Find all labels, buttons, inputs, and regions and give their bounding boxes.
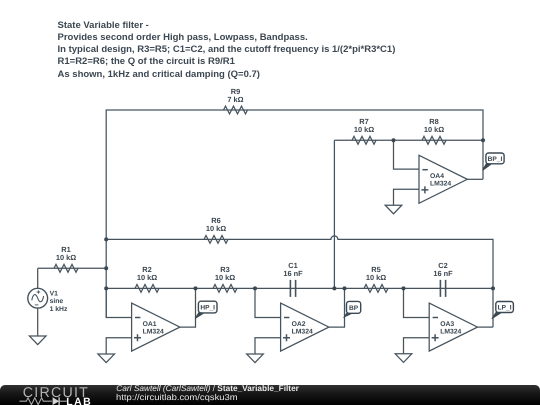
svg-text:OA1: OA1	[143, 321, 157, 328]
svg-text:OA3: OA3	[440, 321, 454, 328]
svg-text:10 kΩ: 10 kΩ	[206, 224, 226, 233]
svg-text:LP_I: LP_I	[498, 304, 512, 311]
svg-text:LM324: LM324	[143, 329, 164, 336]
svg-text:1 kHz: 1 kHz	[50, 306, 68, 313]
svg-text:10 kΩ: 10 kΩ	[56, 253, 76, 262]
svg-text:LM324: LM324	[430, 181, 451, 188]
svg-text:10 kΩ: 10 kΩ	[354, 125, 374, 134]
svg-text:OA2: OA2	[292, 321, 306, 328]
svg-text:OA4: OA4	[430, 173, 444, 180]
svg-text:HP_I: HP_I	[200, 304, 215, 311]
svg-text:10 kΩ: 10 kΩ	[137, 273, 157, 282]
svg-text:16 nF: 16 nF	[283, 269, 303, 278]
svg-text:V1: V1	[50, 291, 59, 298]
svg-text:BP_I: BP_I	[488, 156, 503, 163]
svg-text:10 kΩ: 10 kΩ	[366, 273, 386, 282]
svg-text:10 kΩ: 10 kΩ	[424, 125, 444, 134]
svg-text:7 kΩ: 7 kΩ	[227, 95, 243, 104]
svg-text:LM324: LM324	[440, 329, 461, 336]
svg-text:16 nF: 16 nF	[433, 269, 453, 278]
svg-text:sine: sine	[50, 298, 64, 305]
svg-text:LM324: LM324	[292, 329, 313, 336]
svg-text:10 kΩ: 10 kΩ	[215, 273, 235, 282]
svg-text:BP: BP	[349, 305, 359, 312]
